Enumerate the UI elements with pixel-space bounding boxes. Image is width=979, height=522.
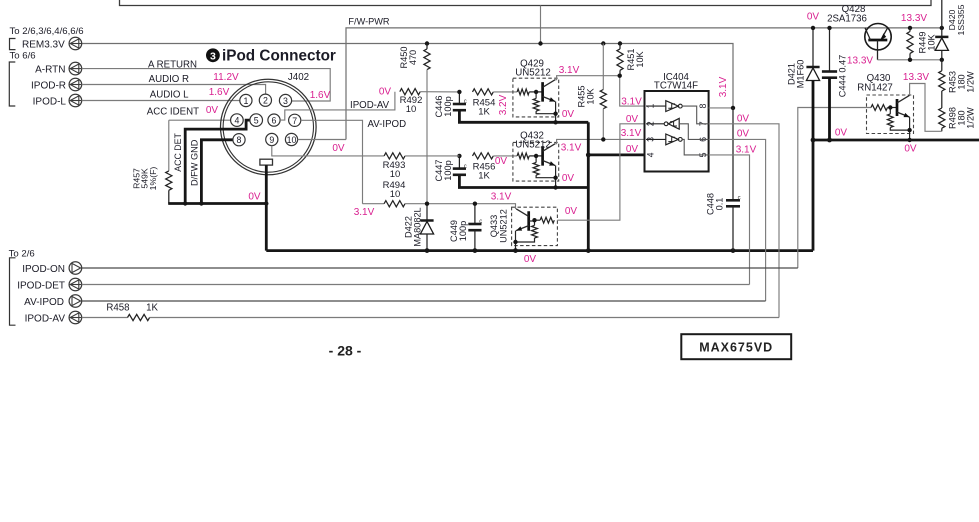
resistor R455 with leads [600, 44, 606, 140]
pin 1 [240, 94, 252, 106]
MAX675VD box [681, 334, 791, 359]
connector key notch [260, 159, 273, 165]
label R492 10 [400, 95, 423, 115]
wire notch to main ground (bold) [265, 165, 268, 251]
svg-text:11.2V: 11.2V [213, 72, 239, 83]
svg-text:MAX675VD: MAX675VD [699, 340, 773, 354]
svg-text:1/2W: 1/2W [966, 71, 976, 93]
resistor R492 [400, 89, 460, 95]
label Q429 UN5212 [515, 59, 551, 79]
wire Q433 input from IC404 pin2 [557, 124, 644, 220]
resistor R494 [363, 201, 428, 207]
svg-text:MA8082L: MA8082L [413, 207, 423, 246]
junction dot pin8 [731, 106, 735, 110]
top page-frame box (cut off at top) [120, 0, 932, 6]
junction dots main ground [425, 248, 736, 253]
label R456 1K [473, 162, 496, 182]
svg-text:3: 3 [283, 96, 288, 106]
pin 7 [289, 114, 301, 126]
svg-text:F/W-PWR: F/W-PWR [348, 17, 390, 27]
label D420 1SS355 (vertical) [947, 4, 966, 35]
transistor Q432 dashed box [513, 142, 559, 181]
junction dots 13.3V rail [908, 58, 944, 62]
IC404 pin numbers [646, 104, 708, 158]
resistor R456 [473, 153, 518, 159]
pin 9 [266, 133, 278, 145]
svg-text:10K: 10K [586, 87, 596, 104]
pin 3 [279, 94, 291, 106]
label R458 1K [106, 303, 158, 314]
emitter rail Q429 (bold) [459, 110, 588, 122]
svg-text:A RETURN: A RETURN [148, 59, 197, 70]
wire REM3.3V rail [82, 44, 733, 108]
svg-text:1SS355: 1SS355 [956, 4, 966, 35]
svg-text:4: 4 [234, 116, 239, 126]
svg-text:c: c [738, 196, 741, 202]
resistor R449 [907, 28, 913, 60]
wire IC404 pin7 to IPOD-AV line [709, 124, 779, 318]
svg-text:5: 5 [254, 116, 259, 126]
svg-text:D/FW GND: D/FW GND [190, 139, 200, 186]
diode D421 [806, 28, 819, 140]
wire Q429 emitter to rail [555, 102, 557, 123]
label IC404 TC7W14F [654, 72, 698, 92]
label Q430 RN1427 [857, 73, 893, 93]
svg-text:1%(F): 1%(F) [148, 167, 158, 191]
transistor Q430 internals [871, 95, 910, 130]
pin 4 [231, 114, 244, 127]
transistor Q429 internals [517, 80, 556, 114]
pin 10 [285, 133, 297, 145]
wire D/FW GND pin8 (bold) [201, 140, 233, 204]
wire IC404 pin6 to AV-IPOD line [709, 139, 766, 301]
svg-text:10: 10 [390, 189, 401, 200]
svg-text:REM3.3V: REM3.3V [22, 40, 65, 51]
svg-text:13.3V: 13.3V [901, 13, 927, 24]
svg-text:ACC IDENT: ACC IDENT [147, 107, 199, 118]
voltage labels IC404 left [621, 97, 642, 156]
svg-text:10: 10 [287, 135, 297, 145]
label C448 0.1 (vertical) [706, 193, 725, 215]
resistor R453 [939, 60, 945, 91]
junction dot pin4 riser [586, 153, 591, 158]
inverter B (mirrored) [646, 118, 708, 139]
svg-text:3.1V: 3.1V [491, 191, 512, 202]
svg-text:IPOD-AV: IPOD-AV [350, 100, 390, 111]
resistor R451 with leads [617, 44, 623, 76]
capacitor C444 [822, 28, 837, 140]
svg-text:13.3V: 13.3V [903, 72, 929, 83]
label R453 180 1/2W (vertical) [948, 71, 976, 93]
wire ACC DET pin5 (bold) [185, 120, 250, 203]
svg-text:1/2W: 1/2W [966, 107, 976, 129]
svg-text:0V: 0V [626, 114, 639, 125]
svg-text:ACC DET: ACC DET [173, 132, 183, 171]
svg-text:3.1V: 3.1V [718, 76, 729, 97]
IC404 box [645, 91, 709, 172]
right ground rail (bold) [813, 139, 979, 142]
wire F/W-PWR rail [346, 28, 942, 140]
wire IPOD-ON up to Q430 input [798, 108, 871, 269]
connector A-RTN [69, 62, 82, 75]
wire IC404 pin4 gnd (bold) [588, 153, 644, 156]
wire pin10 to F/W-PWR [298, 139, 346, 141]
wire Q430 collector to R498 [910, 84, 942, 132]
svg-text:1K: 1K [146, 303, 158, 314]
capacitor C448 [726, 108, 741, 251]
label C449 100p (vertical) [449, 220, 468, 242]
svg-text:- 28 -: - 28 - [329, 342, 362, 358]
junction dots Q433 [425, 202, 537, 245]
svg-text:M1F60: M1F60 [796, 60, 806, 89]
svg-text:9: 9 [269, 135, 274, 145]
svg-text:TC7W14F: TC7W14F [654, 81, 698, 92]
connector IPOD-DET [69, 278, 82, 291]
svg-text:0V: 0V [626, 144, 639, 155]
svg-text:10K: 10K [635, 50, 645, 67]
label R457 549K 1%(F) (vertical) [132, 167, 158, 191]
svg-text:0V: 0V [524, 254, 537, 265]
wire AUDIO L to pin 1 [82, 100, 240, 102]
svg-text:UN5212: UN5212 [499, 209, 509, 243]
svg-text:To 6/6: To 6/6 [10, 51, 36, 62]
resistor R454 [473, 89, 518, 95]
inverter C [646, 134, 708, 155]
svg-text:3.2V: 3.2V [498, 94, 509, 115]
svg-text:13.3V: 13.3V [847, 56, 873, 67]
wire Q428 base rail 13.3V [878, 59, 942, 61]
main ground rail (bold) [266, 249, 813, 252]
svg-text:0V: 0V [807, 12, 820, 23]
svg-text:c: c [464, 99, 467, 105]
label R454 1K [473, 98, 496, 118]
svg-text:0V: 0V [562, 109, 575, 120]
svg-text:IPOD-R: IPOD-R [31, 80, 66, 91]
junction dots right ground [811, 138, 832, 143]
label R449 10K (vertical) [918, 32, 937, 54]
label C446 100p (vertical) [434, 96, 453, 118]
label R455 10K (vertical) [577, 86, 596, 108]
svg-text:AV-IPOD: AV-IPOD [368, 119, 407, 130]
svg-text:0V: 0V [737, 114, 750, 125]
wire IC404 pin5 to IPOD-DET line [709, 155, 750, 285]
capacitor C446 [453, 92, 467, 110]
svg-text:IPOD-AV: IPOD-AV [25, 313, 66, 324]
svg-text:IPOD-L: IPOD-L [33, 96, 67, 107]
wire Q432 emitter to rail [555, 166, 557, 188]
pin 8 [233, 134, 245, 146]
transistor Q433 internals (mirrored) [516, 209, 555, 242]
svg-text:0V: 0V [562, 173, 575, 184]
junction dots Q432 [457, 137, 605, 190]
svg-text:4: 4 [646, 152, 656, 157]
connector IPOD-R [69, 78, 82, 91]
label R498 180 1/2W (vertical) [948, 107, 976, 129]
svg-text:2: 2 [263, 96, 268, 106]
wire IPOD-ON [82, 267, 798, 269]
inverter A [646, 101, 708, 124]
bracket A-RTN group [9, 62, 15, 106]
svg-text:UN5212: UN5212 [515, 139, 551, 150]
svg-text:0V: 0V [206, 105, 219, 116]
wire AUDIO R to pin 2 [82, 85, 266, 95]
resistor R457 [166, 171, 172, 204]
capacitor C447 [453, 156, 467, 175]
connector IPOD-L [69, 94, 82, 107]
resistor R493 [384, 153, 459, 159]
capacitor C449 [468, 204, 482, 251]
svg-text:c: c [479, 219, 482, 225]
label C447 100p (vertical) [434, 160, 453, 182]
svg-text:c: c [464, 164, 467, 170]
connector IPOD-ON [69, 262, 82, 275]
svg-text:0V: 0V [495, 156, 508, 167]
junction dots Q429 [457, 74, 622, 125]
transistor Q432 internals [517, 144, 556, 178]
svg-text:10K: 10K [927, 33, 937, 50]
svg-text:100p: 100p [458, 221, 468, 241]
transistor Q429 dashed box [513, 78, 559, 117]
wire Q429 collector to 3.1V net [555, 76, 644, 106]
svg-text:0V: 0V [379, 87, 392, 98]
svg-text:100p: 100p [443, 96, 453, 116]
svg-text:To 2/6,3/6,4/6,6/6: To 2/6,3/6,4/6,6/6 [10, 26, 84, 37]
svg-text:3.1V: 3.1V [561, 143, 582, 154]
svg-text:RN1427: RN1427 [857, 82, 893, 93]
diode D420 [935, 0, 948, 60]
svg-text:IPOD-ON: IPOD-ON [22, 264, 65, 275]
transistor Q433 dashed box [512, 207, 558, 245]
svg-text:6: 6 [272, 116, 277, 126]
svg-text:100p: 100p [443, 160, 453, 180]
connector IPOD-AV [69, 311, 82, 324]
wire pin9 down and right [272, 146, 384, 156]
svg-text:1K: 1K [478, 171, 490, 182]
junction dots Q430 [888, 105, 912, 142]
connector J402 outer circles [220, 79, 316, 175]
svg-text:1.6V: 1.6V [209, 87, 230, 98]
svg-text:AUDIO R: AUDIO R [149, 74, 189, 85]
bracket REM3.3V [10, 39, 16, 50]
junction dots under-connector rail [183, 201, 268, 205]
svg-text:3.1V: 3.1V [559, 65, 580, 76]
label Q428 2SA1736 [827, 4, 867, 24]
ground rail under connector (bold) [168, 202, 266, 205]
svg-text:A-RTN: A-RTN [35, 65, 65, 76]
label R451 10K (vertical) [626, 49, 645, 71]
heading badge 3 [206, 48, 220, 62]
label R450 470 (vertical) [399, 47, 418, 69]
svg-text:AV-IPOD: AV-IPOD [24, 297, 64, 308]
wire ACC IDENT to pin 4 [169, 119, 231, 121]
label Q432 UN5212 [515, 131, 551, 151]
svg-text:8: 8 [698, 104, 708, 109]
svg-text:0V: 0V [835, 127, 848, 138]
svg-text:3.1V: 3.1V [736, 145, 757, 156]
node junction dots on power rails [425, 41, 622, 45]
svg-text:UN5212: UN5212 [515, 67, 551, 78]
pin 6 [268, 114, 280, 126]
svg-text:0V: 0V [904, 144, 917, 155]
svg-text:1.6V: 1.6V [310, 90, 331, 101]
wire Q433 emitter to ground [515, 231, 517, 251]
resistor R498 [939, 91, 945, 131]
pin 2 [259, 94, 271, 106]
resistor R450 with leads [424, 44, 430, 204]
svg-text:AUDIO L: AUDIO L [150, 90, 189, 101]
svg-text:10: 10 [390, 169, 401, 180]
wire ACC IDENT down to R457 [168, 120, 170, 171]
svg-text:2SA1736: 2SA1736 [827, 13, 867, 24]
wire IC404 pin8 VCC [709, 107, 733, 109]
svg-text:10: 10 [406, 104, 417, 115]
svg-text:8: 8 [237, 135, 242, 145]
svg-text:1K: 1K [478, 107, 490, 118]
wire Q430 emitter to ground [909, 117, 911, 140]
svg-text:0V: 0V [332, 143, 345, 154]
diode D422 [420, 204, 433, 251]
svg-text:iPod Connector: iPod Connector [222, 48, 336, 65]
svg-text:0V: 0V [737, 129, 750, 140]
wire A RETURN to pin 3 [82, 69, 331, 101]
transistor Q430 dashed box [867, 95, 914, 134]
svg-text:3.1V: 3.1V [621, 97, 642, 108]
label R494 10 [383, 180, 406, 200]
svg-text:470: 470 [408, 50, 418, 65]
svg-text:3.1V: 3.1V [621, 128, 642, 139]
bracket bottom group [10, 258, 16, 325]
svg-text:7: 7 [292, 116, 297, 126]
svg-text:3.1V: 3.1V [354, 207, 375, 218]
transistor Q428 (PNP) [865, 24, 891, 60]
svg-text:3: 3 [210, 50, 216, 62]
svg-text:J402: J402 [288, 72, 309, 83]
wire R494 junction to Q433 collector [427, 204, 516, 209]
connector REM3.3V [69, 37, 82, 50]
svg-text:0V: 0V [248, 192, 261, 203]
junction dots F/W rail right [811, 26, 944, 30]
svg-text:0.1: 0.1 [715, 198, 725, 211]
svg-text:1: 1 [243, 96, 248, 106]
wire IPOD-DET [82, 284, 750, 286]
bold gnd riser x588 [587, 122, 590, 250]
svg-text:0V: 0V [565, 206, 578, 217]
svg-text:IPOD-DET: IPOD-DET [17, 280, 65, 291]
wire AV-IPOD [82, 300, 766, 302]
emitter rail Q432 (bold) [459, 175, 588, 188]
connector AV-IPOD [69, 295, 82, 308]
svg-text:R458: R458 [106, 303, 129, 314]
wire Q432 collector to IC404 pin3 [555, 139, 644, 143]
wire from top box down to REM3.3V line [540, 6, 542, 44]
label Q433 UN5212 (vertical) [489, 209, 509, 243]
wire pin7 to AV-IPOD net [301, 120, 363, 203]
wire pin6 to IPOD-AV R492 [280, 92, 395, 120]
label D421 M1F60 (vertical) [787, 60, 806, 89]
label D422 MA8082L (vertical) [404, 207, 423, 246]
label R493 10 [383, 160, 406, 180]
pin 5 [250, 114, 263, 127]
svg-text:Q433: Q433 [489, 215, 499, 237]
bold riser to main ground [812, 140, 815, 251]
resistor R458 on IPOD-AV wire [82, 314, 779, 320]
